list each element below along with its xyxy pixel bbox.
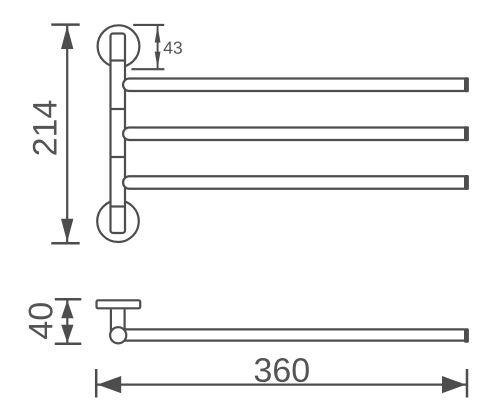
dimension 360 right arrow: [442, 376, 466, 393]
dimension 40 bottom cap: [55, 343, 82, 346]
dimension 360 left arrow: [97, 376, 121, 393]
post divider joint 3: [111, 156, 126, 158]
side view bar end cap: [464, 328, 469, 343]
arm 1 outline: [123, 79, 464, 92]
dimension 360 left cap: [95, 369, 98, 398]
label 40: [29, 303, 53, 339]
dimension 214 top arrow: [61, 26, 73, 49]
dimension 214 top cap: [51, 23, 79, 26]
dimension 40 down arrow: [61, 325, 73, 343]
bottom wall-mount flange circle: [97, 200, 139, 242]
dimension 43 top extension line: [133, 24, 164, 26]
arm 2 end cap: [464, 126, 469, 141]
post divider joint 2: [111, 108, 126, 110]
label 214: [33, 101, 57, 155]
side view flange plate: [97, 300, 141, 308]
dimension 214 bottom cap: [51, 242, 79, 245]
arm 3 end cap: [464, 175, 469, 190]
dimension 40 up arrow: [61, 300, 73, 318]
post divider joint 1: [111, 59, 126, 61]
top wall-mount flange circle: [98, 25, 140, 67]
dimension 43 down arrow: [155, 52, 161, 69]
dimension 360 line: [97, 384, 467, 386]
post (vertical bar): [111, 34, 126, 234]
dimension 43 bottom extension line: [131, 68, 164, 70]
dimension 214 line: [66, 25, 68, 243]
post divider joint 4: [111, 205, 126, 207]
side view bar outline: [118, 329, 465, 340]
dimension 214 bottom arrow: [61, 219, 73, 242]
arm 3 outline: [123, 176, 464, 189]
side view pivot circle: [110, 327, 126, 343]
side view stem left line: [110, 309, 112, 331]
dimension 43 up arrow: [155, 26, 161, 43]
dimension 360 right cap: [466, 369, 469, 398]
arm 1 end cap: [464, 77, 469, 92]
label 360: [255, 358, 309, 382]
arm 2 outline: [123, 128, 464, 141]
dimension 43 line: [157, 25, 159, 69]
dimension 40 line: [66, 300, 68, 343]
side view stem right line: [123, 309, 125, 331]
label 43: [164, 41, 182, 53]
dimension 40 top cap: [55, 298, 82, 301]
